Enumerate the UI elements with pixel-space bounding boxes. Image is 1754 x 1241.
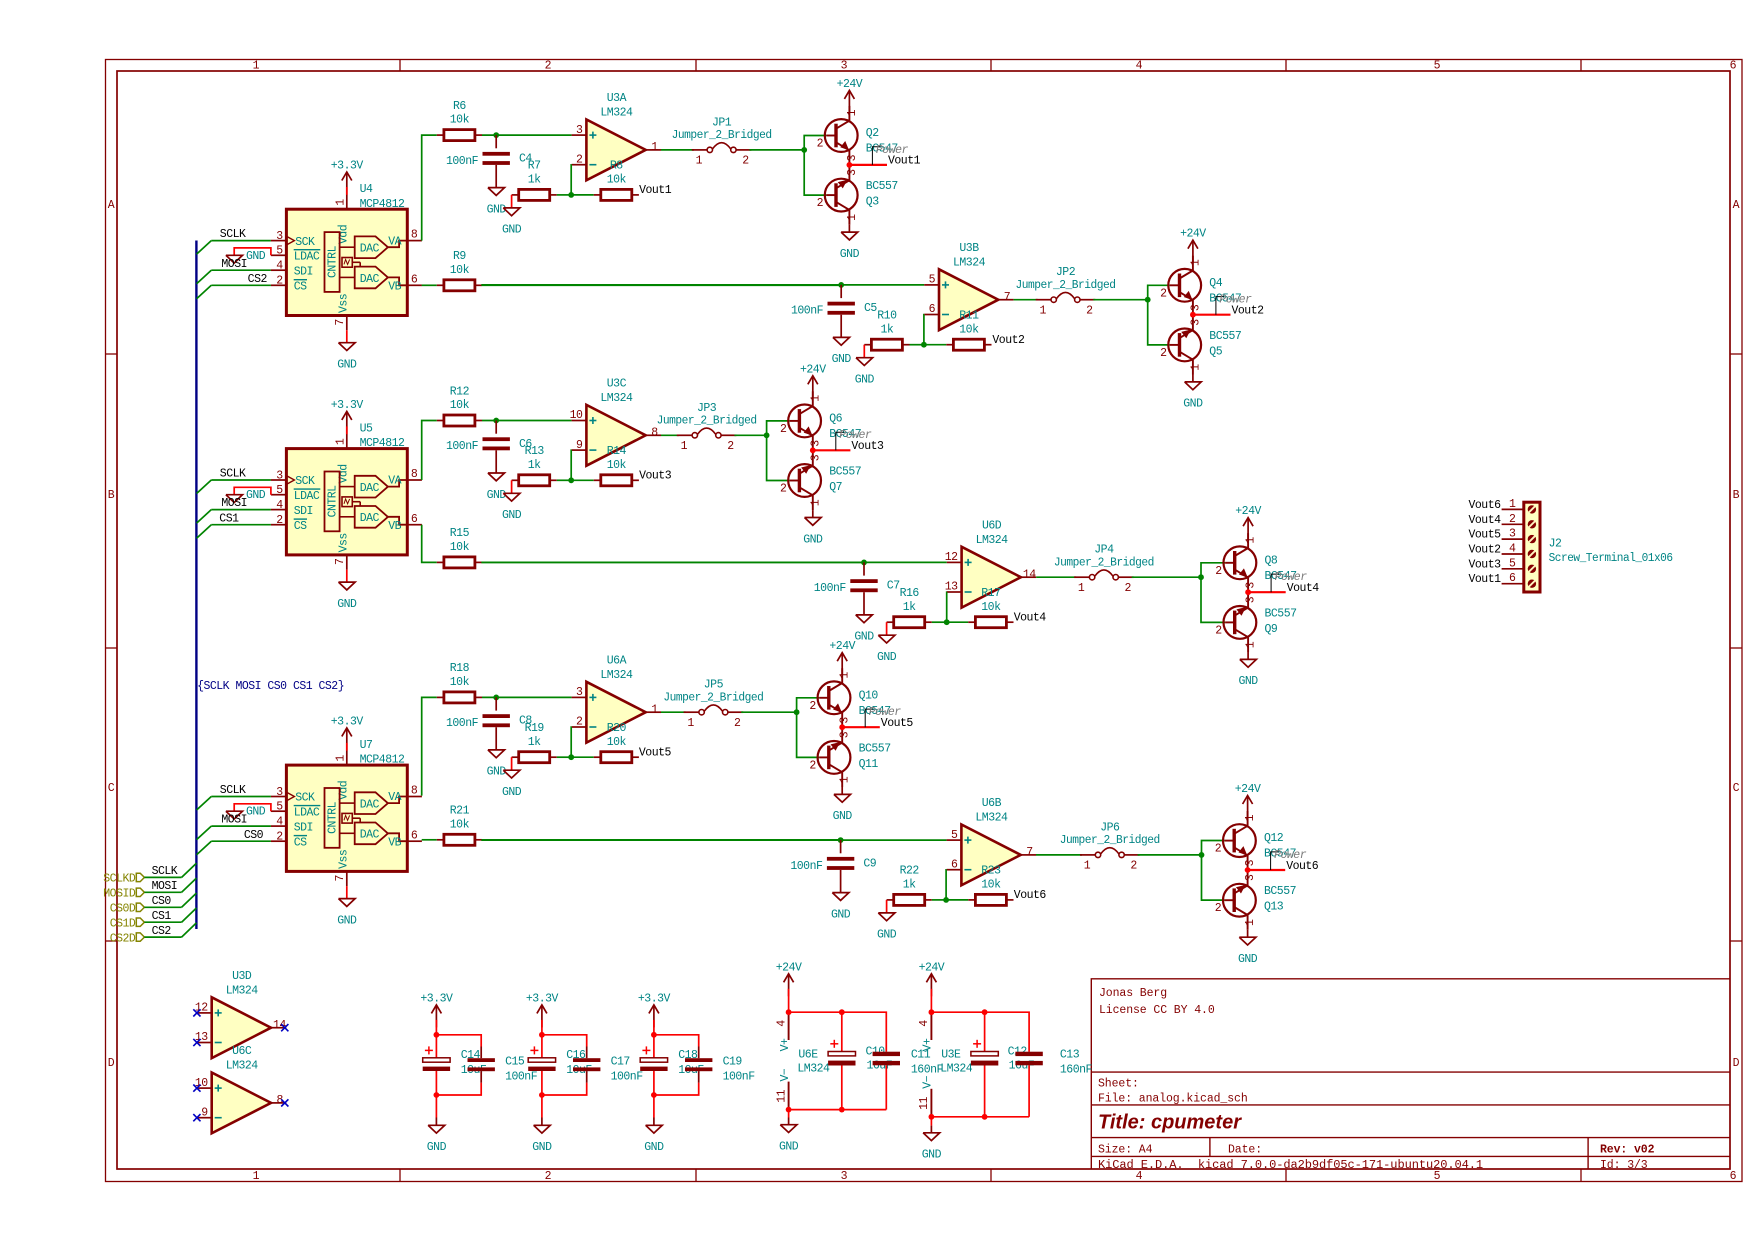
svg-text:+24V: +24V xyxy=(1235,783,1261,796)
svg-text:8: 8 xyxy=(411,229,418,242)
svg-text:7: 7 xyxy=(1004,291,1010,304)
svg-text:U3C: U3C xyxy=(607,377,627,390)
svg-text:1: 1 xyxy=(651,704,658,717)
svg-text:JP3: JP3 xyxy=(697,402,717,415)
junction at bypass cap xyxy=(493,418,499,424)
junction at transistor bases xyxy=(764,432,770,438)
capacitor C12 (polarized) xyxy=(971,1012,998,1117)
connector J2 Screw_Terminal_01x06 body xyxy=(1524,502,1540,592)
svg-text:Vout2: Vout2 xyxy=(992,334,1025,347)
power symbol +24V xyxy=(1235,505,1261,540)
svg-text:2: 2 xyxy=(817,197,824,210)
svg-text:DAC: DAC xyxy=(360,273,380,286)
svg-text:MOSI: MOSI xyxy=(221,497,247,510)
svg-text:D: D xyxy=(1733,1057,1740,1070)
capacitor C19 xyxy=(685,1047,712,1083)
svg-text:Vout4: Vout4 xyxy=(1014,611,1047,624)
svg-text:2: 2 xyxy=(1215,624,1222,637)
power symbol GND xyxy=(337,343,357,372)
netclass directive Power on Vout2 xyxy=(1216,297,1224,315)
wire R7 to node xyxy=(557,194,571,196)
svg-text:3: 3 xyxy=(846,169,859,176)
svg-text:GND: GND xyxy=(854,631,874,644)
no-connect xyxy=(281,1099,288,1106)
svg-text:Screw_Terminal_01x06: Screw_Terminal_01x06 xyxy=(1549,552,1674,565)
wire R7 to GND xyxy=(511,195,513,208)
bus entry xyxy=(182,878,197,892)
svg-text:Vout2: Vout2 xyxy=(1468,544,1501,557)
J2 pin 3 screw xyxy=(1502,528,1537,544)
svg-text:10k: 10k xyxy=(450,399,470,412)
junction at transistor bases xyxy=(1199,852,1205,858)
jumper JP6 xyxy=(1080,848,1140,858)
svg-text:Title: cpumeter: Title: cpumeter xyxy=(1098,1112,1242,1134)
power symbol +3.3V xyxy=(420,992,453,1034)
wire R6 to op-amp +input xyxy=(482,134,572,136)
svg-text:VA: VA xyxy=(388,235,401,248)
junction top xyxy=(539,1032,545,1038)
svg-text:10k: 10k xyxy=(450,114,470,127)
svg-text:2: 2 xyxy=(1215,565,1222,578)
svg-text:U6A: U6A xyxy=(607,654,627,667)
svg-text:DAC: DAC xyxy=(360,512,380,525)
svg-text:U5: U5 xyxy=(360,422,373,435)
svg-text:CS: CS xyxy=(294,520,307,533)
wire to GND xyxy=(541,1095,543,1118)
hierarchical label CS0D xyxy=(110,903,145,916)
svg-text:R8: R8 xyxy=(610,160,623,173)
svg-text:C7: C7 xyxy=(887,580,900,593)
svg-text:CS: CS xyxy=(294,836,307,849)
svg-text:U3A: U3A xyxy=(607,92,627,105)
U4 DAC block 2 xyxy=(355,267,388,289)
svg-text:+3.3V: +3.3V xyxy=(420,992,453,1005)
svg-text:LM324: LM324 xyxy=(226,984,259,997)
svg-text:1k: 1k xyxy=(528,174,541,187)
wire -input to feedback node xyxy=(570,450,572,480)
jumper JP4 xyxy=(1074,570,1134,580)
svg-text:2: 2 xyxy=(276,514,283,527)
svg-text:GND: GND xyxy=(337,914,357,927)
svg-text:CS0: CS0 xyxy=(244,829,264,842)
svg-text:100nF: 100nF xyxy=(790,860,823,873)
junction feedback node xyxy=(568,477,574,483)
junction feedback node xyxy=(943,897,949,903)
U5 pin 5 LDAC xyxy=(271,484,320,503)
svg-text:100nF: 100nF xyxy=(446,155,479,168)
wire Vout3 output stub xyxy=(813,449,851,451)
wire U4 Vss to GND xyxy=(346,330,348,343)
wire R13 to GND xyxy=(511,480,513,493)
svg-text:C: C xyxy=(108,782,115,795)
svg-text:License CC BY 4.0: License CC BY 4.0 xyxy=(1099,1004,1215,1017)
resistor R13 xyxy=(512,445,557,486)
wire -input to feedback node xyxy=(946,592,948,622)
svg-text:CS2: CS2 xyxy=(152,925,172,938)
svg-text:1: 1 xyxy=(1244,919,1257,926)
svg-text:2: 2 xyxy=(1215,843,1222,856)
svg-text:+24V: +24V xyxy=(829,640,855,653)
svg-text:Id: 3/3: Id: 3/3 xyxy=(1600,1159,1648,1172)
svg-text:3: 3 xyxy=(809,454,822,461)
svg-text:3: 3 xyxy=(576,124,583,137)
svg-text:2: 2 xyxy=(1086,305,1093,318)
wire op-amp output to JP1 xyxy=(661,149,694,151)
power symbol GND xyxy=(487,188,507,217)
op-amp U6C xyxy=(197,1073,286,1134)
svg-text:LM324: LM324 xyxy=(975,812,1008,825)
svg-text:LM324: LM324 xyxy=(953,256,986,269)
svg-text:12: 12 xyxy=(945,551,958,564)
svg-text:Q13: Q13 xyxy=(1264,901,1284,914)
svg-text:2: 2 xyxy=(727,440,734,453)
bus entry xyxy=(197,510,212,523)
power symbol +3.3V xyxy=(331,715,364,750)
netclass directive Power on Vout5 xyxy=(865,709,873,727)
svg-text:Q8: Q8 xyxy=(1265,554,1278,567)
resistor R9 xyxy=(437,250,482,291)
U4 pin 6 VB xyxy=(388,273,422,293)
op-amp U3D xyxy=(197,997,286,1058)
svg-text:6: 6 xyxy=(1509,572,1516,585)
svg-text:C13: C13 xyxy=(1060,1049,1080,1062)
wire to GND xyxy=(930,1117,932,1126)
svg-text:R18: R18 xyxy=(450,662,470,675)
svg-text:LDAC: LDAC xyxy=(294,490,320,503)
wire R19 to GND xyxy=(511,757,513,770)
svg-text:Jumper_2_Bridged: Jumper_2_Bridged xyxy=(657,415,757,428)
svg-text:R22: R22 xyxy=(900,865,920,878)
capacitor C4 xyxy=(446,152,532,168)
svg-text:9: 9 xyxy=(201,1106,208,1119)
wire MOSI to U5 xyxy=(211,509,271,511)
svg-text:14: 14 xyxy=(1023,569,1036,582)
svg-text:Vss: Vss xyxy=(337,533,350,552)
svg-text:Q2: Q2 xyxy=(866,127,879,140)
junction at transistor bases xyxy=(1145,297,1151,303)
junction bottom xyxy=(651,1092,657,1098)
wire U7 Vss to GND xyxy=(346,886,348,899)
U4 pin 2 CS xyxy=(271,275,307,294)
wire MOSI to U4 xyxy=(211,269,271,271)
wire long run to op-amp +input xyxy=(481,561,947,563)
svg-text:1: 1 xyxy=(1189,364,1202,371)
transistor Q9 BC557 (PNP) xyxy=(1224,593,1257,652)
svg-text:U6C: U6C xyxy=(232,1045,252,1058)
wire to PNP base xyxy=(797,712,820,757)
svg-text:1: 1 xyxy=(1245,537,1258,544)
wire rail bottom xyxy=(542,1083,587,1095)
capacitor C10 (polarized) xyxy=(828,1012,855,1109)
svg-text:LDAC: LDAC xyxy=(294,251,320,264)
svg-text:SCLK: SCLK xyxy=(220,228,246,241)
svg-text:1: 1 xyxy=(1039,305,1046,318)
svg-text:1k: 1k xyxy=(903,879,916,892)
power symbol +24V xyxy=(800,363,826,398)
svg-text:GND: GND xyxy=(246,250,266,263)
power symbol GND xyxy=(831,893,851,922)
svg-text:SCK: SCK xyxy=(295,475,315,488)
wire Vout4 output stub xyxy=(1248,591,1286,593)
svg-text:3: 3 xyxy=(846,154,859,161)
svg-text:3: 3 xyxy=(276,230,283,243)
U7 pin 6 VB xyxy=(388,829,422,849)
svg-text:GND: GND xyxy=(1238,953,1258,966)
svg-text:Jumper_2_Bridged: Jumper_2_Bridged xyxy=(1060,834,1160,847)
svg-text:14: 14 xyxy=(273,1019,286,1032)
svg-text:A: A xyxy=(108,199,115,212)
power symbol GND xyxy=(427,1125,447,1154)
wire R21 long run xyxy=(482,839,841,841)
svg-text:GND: GND xyxy=(877,651,897,664)
U5 internal connections xyxy=(340,487,361,517)
svg-text:GND: GND xyxy=(337,598,357,611)
power symbol GND xyxy=(1183,375,1203,411)
J2 pin 4 screw xyxy=(1502,543,1537,559)
wire CS1D to bus xyxy=(144,921,181,923)
svg-text:U4: U4 xyxy=(360,183,373,196)
svg-text:CS0: CS0 xyxy=(152,895,172,908)
svg-text:2: 2 xyxy=(1124,582,1131,595)
wire R18 to op-amp +input xyxy=(482,696,572,698)
wire +3.3V rail top xyxy=(436,1035,481,1047)
svg-text:U6B: U6B xyxy=(982,797,1002,810)
netclass directive Power on Vout1 xyxy=(872,147,880,165)
J2 pin 1 screw xyxy=(1502,498,1537,514)
svg-text:1: 1 xyxy=(1245,641,1258,648)
svg-text:2: 2 xyxy=(1215,902,1222,915)
wire -input to feedback node xyxy=(923,315,925,345)
transistor Q11 BC557 (PNP) xyxy=(818,728,851,787)
bus SCLK MOSI CS0 CS1 CS2 xyxy=(195,241,197,930)
wire to bypass capacitor xyxy=(495,135,497,148)
wire R19 to node xyxy=(557,756,571,758)
svg-text:11: 11 xyxy=(918,1097,931,1110)
power symbol GND xyxy=(502,208,522,237)
svg-text:3: 3 xyxy=(1189,304,1202,311)
power symbol GND xyxy=(1238,930,1258,966)
wire U5 LDAC to GND xyxy=(234,487,271,494)
wire +3.3V rail top xyxy=(654,1035,699,1047)
svg-text:GND: GND xyxy=(803,533,823,546)
svg-text:LM324: LM324 xyxy=(600,392,633,405)
J2 pin 6 screw xyxy=(1502,572,1537,588)
svg-text:Q5: Q5 xyxy=(1209,345,1222,358)
svg-text:2: 2 xyxy=(576,153,583,166)
svg-text:SCLK: SCLK xyxy=(220,468,246,481)
wire -input to feedback node xyxy=(570,727,572,757)
svg-text:{SCLK MOSI CS0 CS1 CS2}: {SCLK MOSI CS0 CS1 CS2} xyxy=(197,680,344,693)
wire -input to feedback node xyxy=(945,870,948,900)
resistor R23 xyxy=(968,865,1013,906)
power symbol +24V xyxy=(1235,783,1261,818)
svg-text:CNTRL: CNTRL xyxy=(326,245,339,278)
svg-text:Q6: Q6 xyxy=(829,412,842,425)
svg-text:C17: C17 xyxy=(611,1056,630,1069)
power symbol GND xyxy=(803,510,823,546)
power symbol GND xyxy=(487,473,507,502)
wire node to R17 xyxy=(947,621,969,623)
transistor Q7 BC557 (PNP) xyxy=(788,451,821,510)
wire to GND xyxy=(788,1110,790,1118)
junction at bypass cap xyxy=(861,560,867,566)
svg-text:1: 1 xyxy=(334,199,347,206)
svg-text:GND: GND xyxy=(877,929,897,942)
power symbol +24V xyxy=(776,961,802,1012)
svg-text:Vout3: Vout3 xyxy=(851,440,884,453)
J2 pin 5 screw xyxy=(1502,557,1537,573)
junction bottom xyxy=(434,1092,440,1098)
jumper JP2 xyxy=(1036,292,1096,302)
svg-text:1: 1 xyxy=(253,60,260,73)
junction at transistor bases xyxy=(1198,574,1204,580)
svg-text:LM324: LM324 xyxy=(976,534,1009,547)
junction Vout1 xyxy=(847,162,853,168)
svg-text:6: 6 xyxy=(411,829,418,842)
no-connect xyxy=(193,1085,200,1092)
svg-text:2: 2 xyxy=(1130,860,1137,873)
bus entry xyxy=(197,797,212,811)
svg-text:GND: GND xyxy=(487,766,507,779)
svg-text:DAC: DAC xyxy=(360,799,380,812)
svg-text:2: 2 xyxy=(545,1170,552,1183)
wire -input to feedback node xyxy=(570,165,572,195)
op-amp U6D xyxy=(947,547,1036,608)
svg-text:100nF: 100nF xyxy=(611,1071,644,1084)
svg-text:100nF: 100nF xyxy=(791,305,824,318)
no-connect xyxy=(281,1024,288,1031)
power symbol +24V xyxy=(919,961,945,1012)
op-amp U6A xyxy=(572,682,661,743)
svg-text:7: 7 xyxy=(334,319,347,325)
wire Vout2 output stub xyxy=(1193,314,1231,316)
svg-text:160nF: 160nF xyxy=(911,1064,944,1077)
svg-text:R14: R14 xyxy=(607,445,627,458)
no-connect xyxy=(193,1039,200,1046)
capacitor C8 xyxy=(446,714,532,730)
capacitor C9 xyxy=(790,857,876,873)
svg-text:MOSI: MOSI xyxy=(221,258,247,271)
svg-text:2: 2 xyxy=(276,275,283,288)
svg-text:JP2: JP2 xyxy=(1056,266,1076,279)
svg-text:U3E: U3E xyxy=(941,1049,961,1062)
wire U4 LDAC to GND xyxy=(234,248,271,255)
svg-text:6: 6 xyxy=(1730,1170,1737,1183)
bus entry xyxy=(182,893,197,907)
svg-text:R10: R10 xyxy=(877,310,897,323)
svg-text:100nF: 100nF xyxy=(505,1071,538,1084)
svg-text:10k: 10k xyxy=(981,601,1001,614)
U5 DAC block 1 xyxy=(355,476,388,498)
svg-text:R16: R16 xyxy=(900,587,920,600)
svg-text:MOSI: MOSI xyxy=(221,814,247,827)
wire long run to op-amp +input xyxy=(481,284,924,286)
svg-text:KiCad E.D.A. kicad 7.0.0-da2b: KiCad E.D.A. kicad 7.0.0-da2b9df05c-171-… xyxy=(1098,1159,1483,1172)
svg-text:B: B xyxy=(1733,489,1740,502)
IC U7 MCP4812 body xyxy=(286,765,407,871)
wire JP5 to transistors xyxy=(741,711,796,713)
junction Vout4 xyxy=(1245,589,1251,595)
svg-text:DAC: DAC xyxy=(360,243,380,256)
svg-text:100nF: 100nF xyxy=(814,582,847,595)
U5 pin 7 Vss xyxy=(334,533,350,569)
svg-text:SCK: SCK xyxy=(295,236,315,249)
svg-text:R11: R11 xyxy=(959,310,979,323)
svg-text:9: 9 xyxy=(576,439,583,452)
wire C8 to GND xyxy=(495,727,497,750)
title block xyxy=(1091,979,1730,1169)
wire to NPN base xyxy=(797,698,820,712)
power symbol GND xyxy=(854,615,874,644)
capacitor C7 xyxy=(814,579,900,595)
svg-text:3: 3 xyxy=(1509,528,1516,541)
wire R15 long run xyxy=(482,561,864,563)
svg-text:1: 1 xyxy=(651,141,658,154)
power symbol GND xyxy=(337,899,357,928)
svg-text:5: 5 xyxy=(951,829,958,842)
power symbol +3.3V xyxy=(526,992,559,1034)
wire CS0D to bus xyxy=(144,906,181,908)
svg-text:1k: 1k xyxy=(880,323,893,336)
svg-text:Date:: Date: xyxy=(1228,1144,1262,1157)
U5 pin 4 SDI xyxy=(271,499,313,518)
svg-text:Vout1: Vout1 xyxy=(1468,573,1501,586)
wire to NPN base xyxy=(804,136,826,150)
IC U5 MCP4812 body xyxy=(286,449,407,555)
svg-text:1: 1 xyxy=(1189,259,1202,266)
svg-text:10k: 10k xyxy=(450,264,470,277)
IC U4 MCP4812 body xyxy=(286,209,407,315)
U7 pin 1 Vdd xyxy=(334,750,350,800)
svg-text:BC557: BC557 xyxy=(1264,885,1296,898)
power symbol GND xyxy=(840,225,860,261)
svg-text:2: 2 xyxy=(809,759,816,772)
svg-text:R21: R21 xyxy=(450,805,470,818)
bus entry xyxy=(197,841,212,855)
transistor Q13 BC557 (PNP) xyxy=(1223,871,1256,930)
svg-text:GND: GND xyxy=(487,203,507,216)
svg-text:8: 8 xyxy=(411,468,418,481)
wire to GND xyxy=(653,1095,655,1118)
svg-text:GND: GND xyxy=(1238,675,1258,688)
wire SCLKD to bus xyxy=(144,876,181,878)
svg-text:BC557: BC557 xyxy=(829,466,861,479)
svg-text:2: 2 xyxy=(734,717,741,730)
bus entry xyxy=(197,826,212,840)
svg-text:BC557: BC557 xyxy=(866,180,898,193)
wire to NPN base xyxy=(767,421,790,435)
svg-text:C9: C9 xyxy=(863,857,876,870)
svg-text:10: 10 xyxy=(570,409,583,422)
wire C6 to GND xyxy=(495,450,497,473)
bus entry xyxy=(197,270,212,284)
svg-text:10k: 10k xyxy=(450,541,470,554)
U4 pin 1 Vdd xyxy=(334,195,350,245)
svg-text:U6E: U6E xyxy=(798,1049,818,1062)
svg-text:1: 1 xyxy=(846,214,859,221)
wire SCLK to U5 xyxy=(211,479,271,481)
junction Vout5 xyxy=(839,724,845,730)
junction bottom xyxy=(539,1092,545,1098)
junction feedback node xyxy=(568,192,574,198)
U7 pin 2 CS xyxy=(271,831,307,850)
svg-text:Vout1: Vout1 xyxy=(639,184,672,197)
resistor R21 xyxy=(437,805,482,846)
junction Vout2 xyxy=(1190,312,1196,318)
wire R22 to node xyxy=(932,899,946,901)
power symbol +3.3V xyxy=(331,399,364,434)
junction top at C10 xyxy=(839,1009,845,1015)
